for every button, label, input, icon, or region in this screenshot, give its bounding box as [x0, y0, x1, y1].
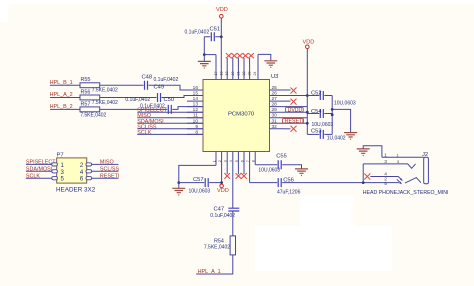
svg-text:VDD: VDD — [216, 7, 228, 13]
ground (right of C55) — [295, 169, 308, 176]
svg-text:30: 30 — [272, 113, 278, 119]
jack pin 2 wire with switch arrow and ring contact — [397, 179, 401, 183]
power VDD (pointing down, under IC) — [217, 184, 229, 194]
svg-text:SCLK: SCLK — [137, 130, 151, 136]
svg-text:20: 20 — [231, 72, 235, 76]
IC U3 top pin numbers (rotated) — [214, 72, 257, 76]
no-connect X bottom pin 6 — [241, 173, 247, 179]
wire SCL/SS to pin 9 — [137, 128, 203, 130]
power VDD (right) — [303, 40, 315, 49]
svg-text:7.5KE,0402: 7.5KE,0402 — [92, 88, 118, 94]
wire SCLK to pin 8 — [137, 133, 203, 135]
wire IC bottom pin 7 down to C56 rail — [250, 182, 278, 184]
ground (below C57) — [172, 188, 185, 195]
wire pin 28 to rail — [284, 106, 307, 108]
wire C47 to R54 — [232, 211, 234, 236]
svg-text:R54: R54 — [214, 238, 224, 244]
header P7 pads — [52, 163, 92, 180]
wire RESETI to header pin 6 — [92, 177, 119, 179]
capacitor C50 0.1uF,0402 — [140, 97, 174, 114]
svg-text:C49: C49 — [154, 85, 165, 91]
svg-text:7: 7 — [246, 160, 250, 162]
svg-text:1: 1 — [384, 152, 387, 158]
svg-text:C47: C47 — [214, 207, 225, 213]
svg-text:HPL_A_1: HPL_A_1 — [198, 269, 221, 275]
svg-text:6: 6 — [240, 160, 244, 162]
IC U3 top pin stubs — [216, 18, 258, 80]
headphone jack J2 — [362, 152, 449, 196]
svg-text:4: 4 — [229, 160, 233, 162]
svg-text:0.1uF,0402: 0.1uF,0402 — [125, 97, 150, 103]
svg-text:C57: C57 — [193, 177, 204, 183]
wire C50 to pin 13 (with jog) — [172, 107, 203, 110]
wire MISO to header pin 2 — [92, 163, 119, 165]
no-connect X bottom pin 3 — [224, 173, 230, 179]
wire R55 to C48 — [100, 84, 144, 86]
wire SPISELECT to header pin 1 — [26, 163, 52, 165]
wire R57 to C50 — [100, 108, 168, 110]
svg-text:C51: C51 — [210, 27, 221, 33]
svg-text:24: 24 — [253, 72, 257, 76]
svg-text:HEADER 3X2: HEADER 3X2 — [56, 187, 96, 194]
wire pin 29 to rail — [284, 111, 307, 113]
wire C51 left down to ground — [203, 37, 205, 61]
capacitor C54 10U,0603 — [307, 109, 333, 128]
svg-text:7.5KE,0402: 7.5KE,0402 — [80, 113, 106, 119]
svg-text:47uF,1206: 47uF,1206 — [277, 189, 301, 195]
svg-text:5: 5 — [384, 181, 387, 187]
svg-text:2: 2 — [218, 160, 222, 162]
wire cap bus to ground — [332, 109, 350, 132]
wire pin 31 to rail — [284, 122, 307, 124]
wire C48 to pin 16 (with jog) — [149, 85, 204, 90]
no-connect X marks on top pins — [226, 53, 254, 58]
wire C49 to pin 15 (with jog) — [162, 96, 204, 98]
ground (top right of IC) — [264, 61, 277, 68]
svg-text:19: 19 — [225, 72, 229, 76]
resistor R56 7.5KE,0402 — [80, 90, 118, 106]
node VDD junction at pin 2 — [220, 181, 223, 184]
capacitor C51 0.1uF,0402 — [185, 27, 222, 42]
svg-text:10U,0603: 10U,0603 — [258, 167, 280, 173]
wire C55 to ground — [282, 165, 301, 169]
wire jack ground to pin 1 — [363, 146, 382, 158]
capacitor C47 0.1uF,0402 (series, vertical) — [210, 207, 239, 220]
wire ground stem below C57 junction — [178, 183, 180, 189]
svg-text:10U,0603: 10U,0603 — [189, 189, 211, 195]
wire SDA/MOSI to pin 10 — [137, 122, 203, 124]
svg-text:7.5KE,0402: 7.5KE,0402 — [92, 100, 118, 106]
svg-text:U3: U3 — [271, 74, 278, 80]
svg-text:27: 27 — [272, 96, 278, 102]
node C57/ground junction — [177, 181, 180, 184]
svg-text:C48: C48 — [142, 75, 153, 81]
svg-text:PCM3070: PCM3070 — [228, 111, 255, 117]
svg-text:7.5KE,0402: 7.5KE,0402 — [204, 244, 230, 250]
resistor R54 7.5KE,0402 (vertical) — [204, 236, 236, 255]
svg-text:C50: C50 — [164, 97, 175, 103]
ground (top left, near C51) — [198, 61, 211, 68]
svg-text:R55: R55 — [81, 77, 91, 83]
svg-text:17: 17 — [214, 72, 218, 76]
capacitor C57 10U,0603 — [179, 177, 222, 195]
svg-text:HEAD PHONEJACK_STEREO_MINI: HEAD PHONEJACK_STEREO_MINI — [363, 190, 449, 196]
wire HPL_A_2 to R56 — [50, 97, 80, 99]
capacitor C48 0.1uF,0402 — [142, 75, 179, 90]
node junction at ground branch — [203, 53, 206, 56]
capacitor C49 0.1uF,0402 — [125, 85, 164, 103]
wire SCLK to header pin 5 — [26, 177, 52, 179]
wire HPL_B_2 to R57 — [50, 108, 80, 110]
IC U3 right pin numbers 25..32 — [272, 85, 278, 130]
IC U3 left pin numbers 16..8 — [193, 85, 199, 135]
svg-text:0.1uF,0402: 0.1uF,0402 — [210, 213, 235, 219]
wire pin 30 to rail — [284, 117, 307, 119]
IC U3 left pin stubs 16..8 — [187, 90, 203, 134]
wire pin 26 to VDD rail — [284, 95, 307, 97]
svg-text:18: 18 — [219, 72, 223, 76]
wire SPISELECT to pin 12 — [137, 111, 203, 113]
svg-text:22: 22 — [242, 72, 246, 76]
svg-text:31: 31 — [272, 118, 278, 124]
no-connect X pin 25 — [284, 89, 291, 91]
jack pin 4 wire with switch arrow — [364, 174, 370, 180]
svg-text:10U,0603: 10U,0603 — [334, 100, 356, 106]
svg-text:0.1uF,0402: 0.1uF,0402 — [154, 77, 179, 83]
svg-text:3: 3 — [384, 159, 387, 165]
svg-text:R56: R56 — [81, 90, 91, 96]
IC U3 bottom pin numbers (rotated) — [212, 160, 255, 162]
capacitor C53 1U,0402 — [307, 128, 346, 141]
svg-text:0.1uF,0402: 0.1uF,0402 — [185, 30, 210, 36]
wire jack pin3 drop — [362, 164, 364, 183]
header P7 HEADER 3X2 — [56, 153, 96, 194]
svg-text:C52: C52 — [311, 91, 322, 97]
net label RESETI on pin 31 — [283, 118, 304, 124]
wire SDA/MOSI to header pin 3 — [26, 170, 52, 172]
ground (right of caps) — [344, 133, 357, 140]
no-connect X bottom pin 5 — [236, 173, 242, 179]
resistor R55 7.5KE,0402 — [80, 77, 118, 93]
svg-text:VDD: VDD — [217, 188, 229, 194]
capacitor C55 10U,0603 — [258, 154, 286, 174]
wire MISO to pin 11 — [137, 117, 203, 119]
svg-text:26: 26 — [272, 91, 278, 97]
power VDD (top, above C51) — [216, 7, 228, 18]
svg-text:5: 5 — [235, 160, 239, 162]
net label DVDD on pin 29 — [286, 107, 304, 113]
wire IC bottom pin 1 to C57 — [179, 165, 216, 182]
IC U3 PCM3070 body — [203, 74, 278, 152]
svg-text:3: 3 — [224, 160, 228, 162]
svg-text:29: 29 — [272, 107, 278, 113]
svg-text:1U,0402: 1U,0402 — [327, 136, 346, 142]
svg-text:8: 8 — [252, 160, 256, 162]
wire IC bottom pin 8 to C55 — [255, 164, 277, 166]
node rail junction pin 31 — [306, 122, 309, 125]
jack pin 1 wire — [382, 156, 424, 158]
resistor R57 7.5KE,0402 — [80, 102, 107, 119]
no-connect X pin 32 — [284, 128, 291, 130]
wire C56 to headphone jack — [282, 182, 399, 184]
svg-text:21: 21 — [236, 72, 240, 76]
svg-text:C55: C55 — [276, 154, 287, 160]
svg-text:25: 25 — [272, 85, 278, 91]
svg-text:C53: C53 — [311, 128, 322, 134]
node cap bus junction upper — [331, 108, 334, 111]
svg-text:14: 14 — [193, 96, 199, 102]
svg-text:10U,0603: 10U,0603 — [312, 122, 334, 128]
wire HPL_B_1 to R55 — [50, 84, 80, 86]
svg-text:C54: C54 — [311, 109, 322, 115]
IC U3 right pin stubs 25..32 — [270, 90, 285, 129]
wire R56 to C49 — [100, 97, 157, 99]
IC U3 bottom pin stubs — [216, 152, 255, 209]
svg-text:VDD: VDD — [303, 40, 315, 46]
jack sleeve barrel — [424, 157, 429, 184]
wire R54 down to HPL_A_1 — [196, 255, 233, 274]
svg-text:1: 1 — [212, 160, 216, 162]
wire from junction to pin stub — [204, 54, 216, 56]
no-connect X pin 27 — [284, 100, 291, 102]
capacitor C56 47uF,1206 — [277, 178, 301, 196]
node rail junction pin 29 — [306, 111, 309, 114]
wire right cap bus — [331, 96, 333, 135]
ground (at headphone jack) — [357, 149, 370, 156]
wire VDD rail down right side — [306, 49, 308, 135]
node cap bus junction lower — [331, 113, 334, 116]
capacitor C52 10U,0603 — [307, 91, 356, 107]
svg-text:R57: R57 — [81, 102, 91, 108]
wire top pin to right ground — [258, 54, 271, 60]
wire SCL/SS to header pin 4 — [92, 170, 119, 172]
svg-text:23: 23 — [248, 72, 252, 76]
node rail junction pin 26 — [306, 94, 309, 97]
node: VDD wire junction at C51 — [220, 35, 223, 38]
jack pin 3 wire and tip contact — [363, 164, 415, 168]
svg-text:32: 32 — [272, 124, 278, 130]
node jack pin2/pin3 junction — [362, 181, 365, 184]
svg-text:28: 28 — [272, 102, 278, 108]
